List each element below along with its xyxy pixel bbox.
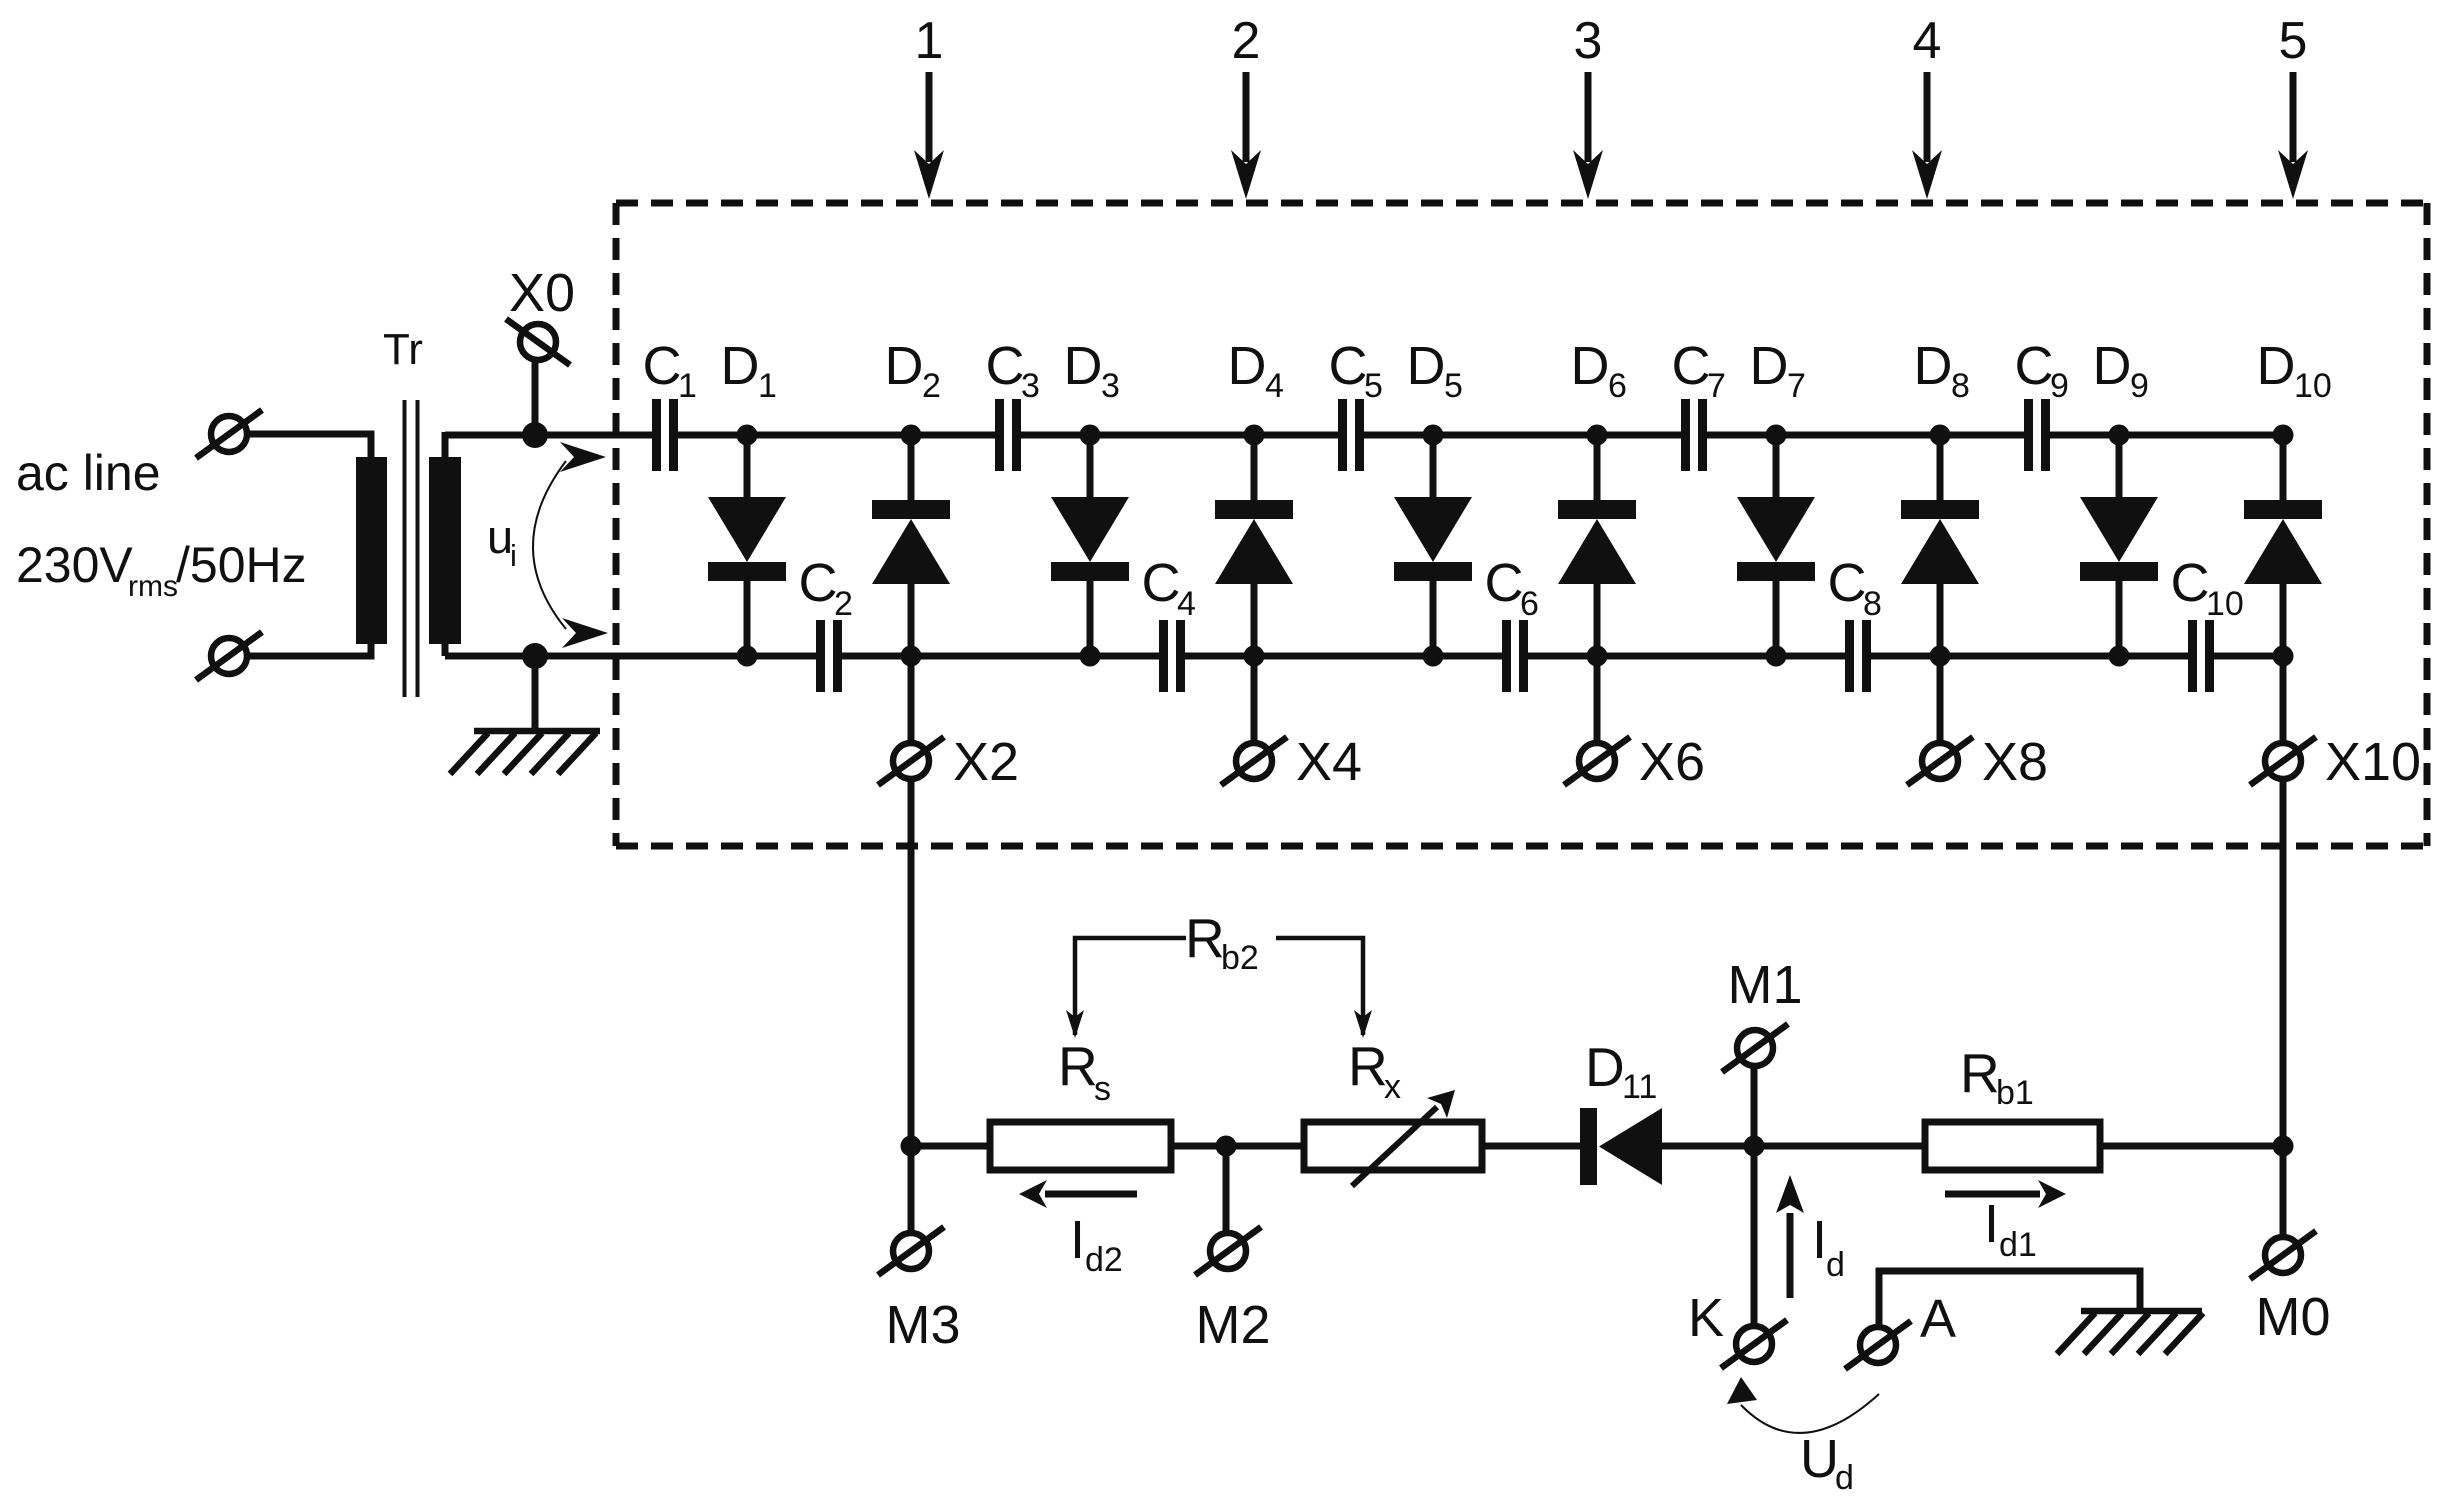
bracket Rb2 right <box>1276 938 1372 1038</box>
wire bottom rail segment 2 <box>842 653 1159 660</box>
svg-text:10: 10 <box>2206 585 2244 623</box>
wire bottom rail segment 4 <box>1528 653 1845 660</box>
svg-text:5: 5 <box>2279 12 2308 70</box>
wire ac top to primary <box>249 434 371 458</box>
wire top rail segment 3 <box>1021 432 1338 439</box>
wire X10 stub <box>2280 656 2287 741</box>
wire top rail segment 6 <box>2050 432 2283 439</box>
terminal X0 <box>506 319 570 365</box>
svg-text:8: 8 <box>1951 367 1970 405</box>
svg-text:6: 6 <box>1608 367 1627 405</box>
svg-text:C: C <box>2015 336 2054 396</box>
label Id1 <box>1984 1194 2037 1264</box>
wire X2 to M3 node <box>908 781 915 1146</box>
label D1 <box>721 336 777 405</box>
wire M1 stub <box>1751 1068 1758 1146</box>
svg-text:C: C <box>1672 336 1711 396</box>
svg-text:C: C <box>1485 553 1524 613</box>
svg-text:D: D <box>1585 1036 1625 1098</box>
svg-text:8: 8 <box>1863 585 1882 623</box>
node D1 bottom <box>737 646 758 667</box>
svg-text:d: d <box>1835 1459 1854 1497</box>
wire X4 stub <box>1251 656 1258 741</box>
stage arrow 5 <box>2278 12 2308 199</box>
curved arrow u_i <box>533 442 608 648</box>
svg-text:230V: 230V <box>16 537 133 593</box>
svg-text:rms: rms <box>128 570 178 603</box>
current arrow Id2 <box>1019 1180 1137 1208</box>
wire Rb1 to M0 node <box>2100 1143 2283 1150</box>
diode D1 <box>708 435 786 656</box>
resistor Rb1 <box>1925 1122 2100 1170</box>
svg-text:D: D <box>1228 336 1267 396</box>
label D2 <box>885 336 941 405</box>
label C1 <box>643 336 697 405</box>
label D7 <box>1750 336 1806 405</box>
wire top rail segment 4 <box>1364 432 1681 439</box>
wire bottom rail segment 6 <box>2214 653 2283 660</box>
wire M0 stub <box>2280 1146 2287 1235</box>
svg-text:7: 7 <box>1707 367 1726 405</box>
svg-text:d: d <box>1826 1246 1845 1284</box>
label Id <box>1812 1210 1845 1284</box>
terminal A <box>1845 1321 1911 1369</box>
curved arrow Ud <box>1727 1377 1879 1433</box>
stage arrow 1 <box>914 12 944 199</box>
dashed box bottom edge <box>616 843 2427 850</box>
diode D4 <box>1215 435 1293 656</box>
label D5 <box>1407 336 1463 405</box>
label C7 <box>1672 336 1726 405</box>
svg-text:X6: X6 <box>1639 732 1705 792</box>
diode D10 <box>2244 435 2322 656</box>
svg-text:C: C <box>1329 336 1368 396</box>
label C5 <box>1329 336 1383 405</box>
svg-text:R: R <box>1960 1042 2000 1104</box>
wire X0 stub <box>532 362 539 435</box>
terminal M2 <box>1195 1227 1261 1275</box>
svg-text:4: 4 <box>1265 367 1284 405</box>
svg-text:4: 4 <box>1177 585 1196 623</box>
svg-text:D: D <box>1750 336 1789 396</box>
node D5 top <box>1423 425 1444 446</box>
capacitor C5 <box>1338 399 1364 471</box>
node D6 bottom <box>1587 646 1608 667</box>
terminal X4 <box>1221 737 1287 785</box>
node D8 top <box>1930 425 1951 446</box>
svg-text:s: s <box>1094 1070 1111 1108</box>
node M3 junction <box>901 1136 922 1157</box>
svg-text:K: K <box>1688 1288 1724 1348</box>
svg-text:2: 2 <box>1232 12 1261 70</box>
resistor Rs <box>990 1122 1171 1170</box>
svg-text:C: C <box>1142 553 1181 613</box>
svg-text:C: C <box>799 553 838 613</box>
label Rx <box>1348 1035 1401 1106</box>
svg-text:M2: M2 <box>1195 1295 1270 1355</box>
variable arrow Rx <box>1352 1090 1455 1186</box>
svg-text:C: C <box>1828 553 1867 613</box>
svg-text:4: 4 <box>1913 12 1942 70</box>
wire M2 stub <box>1223 1146 1230 1231</box>
transformer secondary winding <box>429 457 461 644</box>
diode D6 <box>1558 435 1636 656</box>
wire M1 node to K <box>1751 1146 1758 1323</box>
resistor Rx (variable) <box>1304 1122 1482 1170</box>
terminal X8 <box>1907 737 1973 785</box>
svg-text:C: C <box>2171 553 2210 613</box>
label D3 <box>1064 336 1120 405</box>
label C9 <box>2015 336 2069 405</box>
node D5 bottom <box>1423 646 1444 667</box>
wire X8 stub <box>1937 656 1944 741</box>
svg-text:Tr: Tr <box>383 325 423 374</box>
ground (transformer) <box>450 656 600 774</box>
svg-text:5: 5 <box>1444 367 1463 405</box>
node D2 top <box>901 425 922 446</box>
svg-text:D: D <box>1407 336 1446 396</box>
node D9 bottom <box>2109 646 2130 667</box>
wire bottom rail segment 5 <box>1871 653 2188 660</box>
svg-text:10: 10 <box>2294 367 2332 405</box>
terminal M0 <box>2250 1231 2316 1279</box>
svg-text:C: C <box>986 336 1025 396</box>
svg-text:D: D <box>2093 336 2132 396</box>
current arrow Id1 <box>1945 1180 2066 1208</box>
capacitor C8 <box>1845 620 1871 692</box>
diode D7 <box>1737 435 1815 656</box>
label C3 <box>986 336 1040 405</box>
svg-text:X2: X2 <box>953 732 1019 792</box>
wire X6 stub <box>1594 656 1601 741</box>
terminal ac top <box>196 410 262 458</box>
svg-text:b1: b1 <box>1996 1074 2034 1112</box>
svg-text:2: 2 <box>922 367 941 405</box>
svg-text:M0: M0 <box>2255 1287 2330 1347</box>
node D8 bottom <box>1930 646 1951 667</box>
node D9 top <box>2109 425 2130 446</box>
label Rs <box>1058 1035 1111 1108</box>
label C8 <box>1828 553 1882 623</box>
label D10 <box>2257 336 2332 405</box>
ground (load return) <box>2057 1311 2203 1354</box>
node D7 bottom <box>1766 646 1787 667</box>
node D3 bottom <box>1080 646 1101 667</box>
svg-text:1: 1 <box>758 367 777 405</box>
terminal ac bottom <box>196 632 262 680</box>
svg-text:1: 1 <box>915 12 944 70</box>
svg-text:X8: X8 <box>1982 732 2048 792</box>
capacitor C6 <box>1502 620 1528 692</box>
diode D8 <box>1901 435 1979 656</box>
capacitor C1 <box>652 399 678 471</box>
wire M3 stub <box>908 1146 915 1231</box>
label C2 <box>799 553 853 623</box>
capacitor C4 <box>1159 620 1185 692</box>
label Id2 <box>1070 1210 1123 1279</box>
wire top rail segment 5 <box>1707 432 2024 439</box>
svg-text:/50Hz: /50Hz <box>176 537 307 593</box>
node D4 bottom <box>1244 646 1265 667</box>
node M1 junction <box>1744 1136 1765 1157</box>
label Rb2 <box>1185 907 1259 977</box>
label 230Vrms/50Hz <box>16 537 307 603</box>
svg-text:3: 3 <box>1574 12 1603 70</box>
svg-text:d1: d1 <box>1999 1226 2037 1264</box>
wire bottom rail segment 3 <box>1185 653 1502 660</box>
stage arrow 2 <box>1231 12 1261 199</box>
diode D2 <box>872 435 950 656</box>
wire top rail segment 1 <box>445 432 652 439</box>
label D11 <box>1585 1036 1657 1106</box>
capacitor C7 <box>1681 399 1707 471</box>
wire Rs to Rx <box>1171 1143 1304 1150</box>
label C10 <box>2171 553 2244 623</box>
svg-text:X0: X0 <box>509 263 575 323</box>
stage arrow 4 <box>1912 12 1942 199</box>
wire secondary bottom stub <box>442 642 449 656</box>
svg-text:X4: X4 <box>1296 732 1362 792</box>
svg-text:R: R <box>1348 1035 1388 1097</box>
svg-text:I: I <box>1070 1210 1085 1270</box>
wire ac bottom to primary <box>249 642 371 656</box>
svg-text:b2: b2 <box>1221 939 1259 977</box>
svg-text:5: 5 <box>1364 367 1383 405</box>
svg-text:3: 3 <box>1021 367 1040 405</box>
svg-text:D: D <box>1064 336 1103 396</box>
svg-text:2: 2 <box>834 585 853 623</box>
label u_i <box>487 510 517 573</box>
svg-text:7: 7 <box>1787 367 1806 405</box>
svg-text:9: 9 <box>2050 367 2069 405</box>
svg-text:d2: d2 <box>1085 1241 1123 1279</box>
svg-text:U: U <box>1800 1429 1839 1489</box>
node M2 junction <box>1216 1136 1237 1157</box>
node D4 top <box>1244 425 1265 446</box>
terminal X6 <box>1564 737 1630 785</box>
capacitor C10 <box>2188 620 2214 692</box>
svg-text:D: D <box>1571 336 1610 396</box>
terminal X2 <box>878 737 944 785</box>
node D3 top <box>1080 425 1101 446</box>
node secondary bottom <box>522 643 548 669</box>
wire X2 stub <box>908 656 915 741</box>
svg-text:R: R <box>1058 1035 1098 1097</box>
stage arrow 3 <box>1573 12 1603 199</box>
svg-text:D: D <box>885 336 924 396</box>
svg-text:C: C <box>643 336 682 396</box>
terminal X10 <box>2250 737 2316 785</box>
wire M3 node to Rs <box>911 1143 990 1150</box>
svg-text:I: I <box>1812 1210 1827 1270</box>
diode D9 <box>2080 435 2158 656</box>
svg-text:M1: M1 <box>1727 955 1802 1015</box>
terminal K <box>1721 1320 1787 1368</box>
svg-text:i: i <box>510 538 517 573</box>
label D8 <box>1914 336 1970 405</box>
svg-text:M3: M3 <box>885 1295 960 1355</box>
svg-text:1: 1 <box>678 367 697 405</box>
svg-text:D: D <box>1914 336 1953 396</box>
svg-text:D: D <box>2257 336 2296 396</box>
node D2 bottom <box>901 646 922 667</box>
svg-text:ac line: ac line <box>16 445 161 501</box>
terminal M3 <box>878 1227 944 1275</box>
diode D5 <box>1394 435 1472 656</box>
label D6 <box>1571 336 1627 405</box>
wire X10 to M0 node <box>2280 781 2287 1146</box>
transformer core <box>403 400 407 697</box>
capacitor C2 <box>816 620 842 692</box>
label C6 <box>1485 553 1539 623</box>
bracket Rb2 left <box>1066 938 1186 1038</box>
node D7 top <box>1766 425 1787 446</box>
svg-text:11: 11 <box>1622 1068 1657 1106</box>
dashed box top edge <box>616 200 2427 207</box>
capacitor C9 <box>2024 399 2050 471</box>
svg-text:D: D <box>721 336 760 396</box>
node D1 top <box>737 425 758 446</box>
diode D3 <box>1051 435 1129 656</box>
svg-text:I: I <box>1984 1194 1999 1254</box>
node D10 top <box>2273 425 2294 446</box>
wire secondary top stub <box>442 432 449 458</box>
wire A to ground <box>1879 1271 2140 1324</box>
label D9 <box>2093 336 2149 405</box>
wire D11 to Rb1 <box>1662 1143 1925 1150</box>
label C4 <box>1142 553 1196 623</box>
svg-text:X10: X10 <box>2325 732 2421 792</box>
node X0 junction <box>522 422 548 448</box>
capacitor C3 <box>995 399 1021 471</box>
svg-text:R: R <box>1185 907 1225 969</box>
svg-text:3: 3 <box>1101 367 1120 405</box>
svg-text:9: 9 <box>2130 367 2149 405</box>
svg-text:x: x <box>1384 1068 1401 1106</box>
node D6 top <box>1587 425 1608 446</box>
wire Rx to D11 <box>1482 1143 1580 1150</box>
label D4 <box>1228 336 1284 405</box>
label Ud <box>1800 1429 1854 1497</box>
label Rb1 <box>1960 1042 2034 1112</box>
dashed box right edge <box>2424 203 2431 846</box>
node D10 bottom <box>2273 646 2294 667</box>
transformer primary winding <box>356 457 387 644</box>
wire bottom rail segment 1 <box>445 653 816 660</box>
current arrow Id <box>1776 1175 1804 1298</box>
svg-text:6: 6 <box>1520 585 1539 623</box>
wire top rail segment 2 <box>678 432 995 439</box>
svg-text:A: A <box>1920 1289 1956 1349</box>
diode D11 <box>1580 1108 1662 1185</box>
dashed box left edge <box>613 203 620 846</box>
terminal M1 <box>1722 1024 1788 1072</box>
node M0 junction <box>2273 1136 2294 1157</box>
